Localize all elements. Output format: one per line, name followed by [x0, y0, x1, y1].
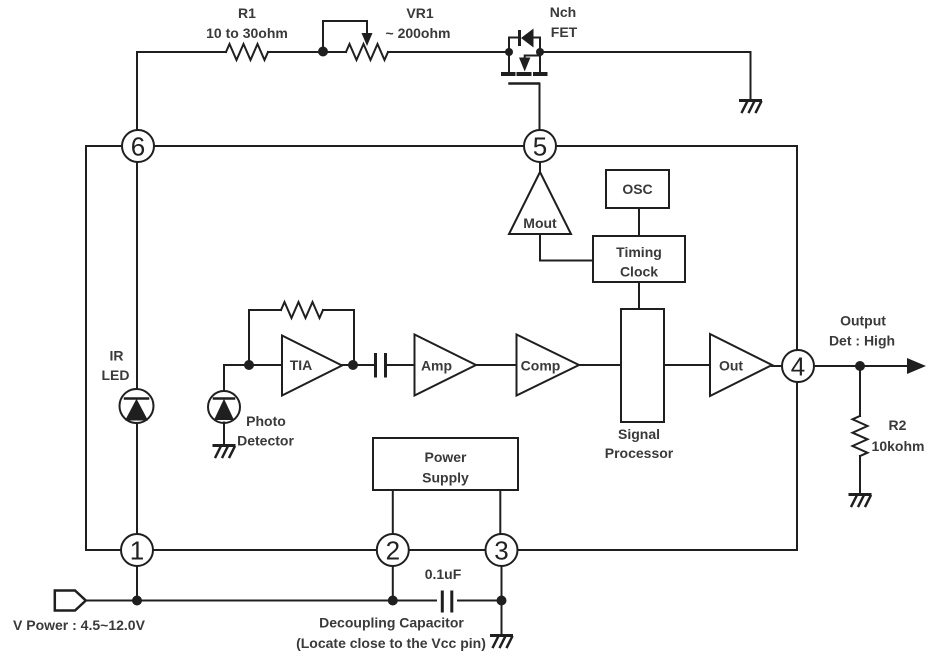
- power rail wire: [86, 600, 502, 602]
- wire pin 1 to power rail: [136, 566, 138, 601]
- wire TIA out to coupling cap: [342, 364, 373, 366]
- svg-text:R2: R2: [889, 417, 907, 433]
- svg-text:10 to 30ohm: 10 to 30ohm: [206, 25, 288, 41]
- svg-text:4: 4: [791, 352, 805, 382]
- svg-text:0.1uF: 0.1uF: [425, 566, 462, 582]
- output arrowhead: [907, 358, 926, 374]
- FET source arrow connector wire: [525, 52, 539, 58]
- resistor R1 value label: [206, 5, 288, 41]
- svg-text:Clock: Clock: [620, 264, 658, 280]
- svg-text:LED: LED: [102, 367, 130, 383]
- wire Signal Processor to Out: [664, 364, 710, 366]
- wire pin 3 to rail: [501, 566, 503, 601]
- svg-text:TIA: TIA: [290, 357, 313, 373]
- svg-text:(Locate close to the Vcc pin): (Locate close to the Vcc pin): [296, 635, 486, 651]
- decoupling capacitor label: [296, 615, 486, 652]
- resistor R1: [226, 44, 268, 60]
- pin 6: [122, 130, 154, 162]
- svg-text:Timing: Timing: [616, 244, 662, 260]
- photo detector label: [237, 413, 294, 449]
- wire R2 to ground: [859, 456, 861, 493]
- svg-text:Nch: Nch: [550, 4, 576, 20]
- FET source arrow: [519, 58, 530, 72]
- IR LED: [120, 389, 154, 423]
- svg-text:V Power : 4.5~12.0V: V Power : 4.5~12.0V: [13, 617, 146, 633]
- node junction dot pin3 rail: [497, 596, 507, 606]
- potentiometer VR1: [346, 44, 388, 60]
- FET body pad: [519, 72, 530, 76]
- svg-text:1: 1: [130, 536, 144, 566]
- svg-text:~ 200ohm: ~ 200ohm: [386, 25, 451, 41]
- photo detector diode: [208, 391, 240, 423]
- Nch FET label: [550, 4, 578, 40]
- wire output node to R2: [859, 366, 861, 416]
- wire IR LED to pin 1: [136, 423, 138, 534]
- svg-text:Decoupling Capacitor: Decoupling Capacitor: [319, 615, 464, 631]
- buffer Out: [710, 334, 772, 396]
- 0.1uF label: [425, 566, 462, 582]
- pin 4: [782, 350, 814, 382]
- comparator Comp: [517, 335, 580, 396]
- decoupling capacitor C 0.1uF: [442, 592, 452, 611]
- V Power label: [13, 617, 146, 633]
- pin 1: [121, 534, 153, 566]
- wire Amp to Comp: [476, 364, 517, 366]
- wire pin 4 to output arrow: [814, 365, 906, 367]
- svg-text:Mout: Mout: [523, 215, 557, 231]
- wire Timing Clock to Signal Processor: [638, 282, 640, 309]
- svg-text:FET: FET: [551, 24, 578, 40]
- FET source node dot: [536, 48, 544, 56]
- VR1 wiper arrowhead: [362, 33, 373, 46]
- IR LED wire from pin6: [136, 162, 138, 389]
- op-amp Mout: [509, 172, 571, 234]
- V Power connector: [55, 591, 86, 611]
- svg-text:5: 5: [533, 132, 547, 162]
- svg-text:6: 6: [131, 132, 145, 162]
- FET drain pad: [503, 72, 514, 76]
- pin 3: [486, 534, 518, 566]
- wire top rail right segment to ground: [540, 52, 751, 99]
- FET body-diode triangle: [521, 29, 534, 48]
- wire pin5 to Mout: [539, 162, 541, 172]
- svg-text:Out: Out: [719, 358, 743, 374]
- wire Out to pin 4: [772, 365, 782, 367]
- wire rail to ground: [501, 601, 503, 635]
- TIA feedback loop wire: [249, 310, 354, 365]
- svg-text:VR1: VR1: [406, 5, 433, 21]
- Signal Processor box: [621, 309, 664, 422]
- wire Power Supply to pin 2: [392, 490, 394, 534]
- svg-text:Photo: Photo: [246, 413, 286, 429]
- wire Comp to Signal Processor: [579, 364, 621, 366]
- op-amp Amp: [415, 335, 477, 396]
- ground R2: [850, 495, 871, 507]
- svg-text:IR: IR: [110, 348, 124, 364]
- feedback resistor: [281, 302, 323, 318]
- FET drain node dot: [505, 48, 513, 56]
- svg-text:Comp: Comp: [521, 358, 561, 374]
- Power Supply box: [373, 438, 518, 490]
- FET body-diode cathode bar: [518, 32, 521, 45]
- svg-text:OSC: OSC: [622, 181, 652, 197]
- FET gate bar: [510, 82, 540, 85]
- svg-text:2: 2: [386, 536, 400, 566]
- FET body-diode loop wire: [509, 38, 540, 53]
- FET right leg wire: [539, 52, 541, 73]
- node junction dot TIA input: [244, 360, 254, 370]
- svg-text:Power: Power: [424, 449, 467, 465]
- wire Mout to Timing Clock: [540, 234, 593, 261]
- output label: [829, 313, 895, 349]
- wire OSC to Timing Clock: [638, 208, 640, 236]
- FET source pad: [535, 72, 546, 76]
- ground bottom: [492, 636, 513, 648]
- svg-text:3: 3: [494, 536, 508, 566]
- svg-text:Detector: Detector: [237, 433, 294, 449]
- node junction dot pin2 rail: [388, 596, 398, 606]
- wire pin 2 to rail: [392, 566, 394, 601]
- Timing Clock box: [593, 236, 685, 282]
- photo detector wire to signal line: [224, 365, 282, 392]
- svg-text:Processor: Processor: [605, 445, 674, 461]
- svg-text:Output: Output: [840, 313, 886, 329]
- wire Power Supply to pin 3: [499, 490, 501, 534]
- FET gate wire down to pin 5: [539, 84, 541, 130]
- wire photo detector to ground: [223, 423, 225, 445]
- wire cap to Amp: [387, 364, 414, 366]
- FET left leg wire: [508, 52, 510, 73]
- IR LED label: [102, 348, 130, 384]
- wire top rail down to pin 6: [136, 52, 138, 130]
- node junction dot at VR1 wiper: [318, 47, 328, 57]
- ground photo detector: [214, 446, 235, 458]
- svg-text:Amp: Amp: [421, 358, 452, 374]
- resistor R2: [853, 416, 868, 456]
- IC block boundary: [86, 146, 797, 550]
- node junction dot TIA output: [348, 360, 358, 370]
- svg-text:10kohm: 10kohm: [872, 438, 925, 454]
- R2 label: [872, 417, 925, 454]
- op-amp TIA: [282, 336, 342, 396]
- svg-text:R1: R1: [238, 5, 256, 21]
- pin 2: [377, 534, 409, 566]
- node junction dot pin1 rail: [132, 596, 142, 606]
- ground top right: [741, 101, 762, 113]
- VR1 value label: [386, 5, 451, 41]
- oscillator OSC box: [606, 170, 669, 208]
- transistor Nch FET: [503, 29, 546, 131]
- svg-text:Det : High: Det : High: [829, 333, 895, 349]
- node junction dot output: [855, 361, 865, 371]
- svg-text:Signal: Signal: [618, 426, 660, 442]
- wire VR1 wiper loop: [323, 21, 367, 52]
- coupling capacitor: [376, 355, 386, 377]
- wire top rail left segment: [137, 51, 508, 53]
- pin 5: [524, 130, 556, 162]
- svg-text:Supply: Supply: [422, 470, 469, 486]
